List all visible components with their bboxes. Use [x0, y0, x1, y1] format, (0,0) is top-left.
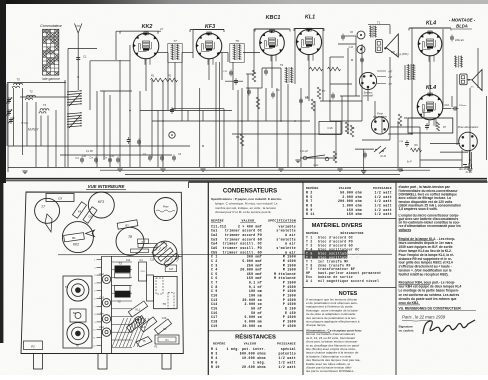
svg-text:RÉSISTANCES: RÉSISTANCES	[235, 332, 276, 340]
svg-text:T8: T8	[235, 39, 239, 43]
svg-text:10.000 ohms: 10.000 ohms	[242, 356, 266, 360]
svg-text:PUISSANCE: PUISSANCE	[373, 187, 392, 190]
svg-text:MATÉRIEL DIVERS: MATÉRIEL DIVERS	[312, 221, 363, 229]
svg-text:0,1 Mf: 0,1 Mf	[86, 150, 93, 153]
svg-text:R5: R5	[404, 116, 408, 120]
svg-text:KF3: KF3	[205, 24, 215, 30]
svg-text:VALEUR: VALEUR	[339, 187, 352, 190]
svg-text:1 még.: 1 még.	[253, 360, 266, 364]
svg-text:REPÈRE: REPÈRE	[306, 186, 319, 190]
svg-text:feuillet relatif au récepteur: feuillet relatif au récepteur KB2).	[399, 273, 449, 277]
svg-text:Cm: Cm	[110, 155, 114, 158]
svg-text:P 1500: P 1500	[283, 324, 296, 328]
svg-text:alternatif: alternatif	[363, 94, 373, 98]
svg-text:B1: B1	[72, 236, 76, 240]
svg-text:R 6: R 6	[211, 360, 218, 364]
svg-text:HP: HP	[391, 50, 395, 54]
svg-text:Commutateur: Commutateur	[40, 24, 63, 28]
svg-text:1 még. pot. inter.: 1 még. pot. inter.	[227, 347, 266, 351]
svg-text:Cm: Cm	[75, 158, 79, 160]
svg-text:R2: R2	[168, 74, 172, 78]
svg-text:d'essai pour P et M, et de ser: d'essai pour P et M, et de service pour …	[215, 210, 272, 214]
svg-text:KL1: KL1	[136, 308, 141, 312]
svg-text:R 4: R 4	[211, 356, 218, 360]
svg-text:6v P: 6v P	[407, 162, 412, 164]
svg-text:C9: C9	[58, 196, 62, 200]
svg-text:Vers Prise: Vers Prise	[459, 169, 470, 171]
svg-text:KL1: KL1	[305, 15, 315, 21]
svg-text:Ca1: Ca1	[99, 326, 104, 329]
svg-text:T2: T2	[29, 90, 33, 94]
svg-text:Cm: Cm	[100, 313, 104, 316]
svg-text:B3: B3	[125, 224, 129, 228]
svg-text:T1: T1	[377, 21, 381, 25]
svg-text:C13: C13	[349, 46, 354, 49]
svg-text:REPÈRE: REPÈRE	[306, 231, 319, 235]
svg-text:Prise alimentation: Prise alimentation	[458, 125, 479, 129]
svg-text:C7: C7	[160, 27, 164, 31]
svg-text:+HT: +HT	[388, 71, 393, 73]
svg-text:T4: T4	[43, 103, 47, 107]
svg-text:REPÈRE: REPÈRE	[213, 342, 226, 346]
svg-text:T5: T5	[16, 78, 20, 82]
svg-text:chaque lampe.: chaque lampe.	[306, 323, 326, 327]
svg-text:Ca3: Ca3	[99, 297, 104, 300]
svg-text:KF3: KF3	[98, 200, 104, 204]
svg-text:6v acc: 6v acc	[466, 172, 473, 174]
svg-text:- MONTAGE -: - MONTAGE -	[449, 18, 476, 23]
svg-text:PUISSANCE: PUISSANCE	[277, 343, 296, 346]
svg-text:Paris , le 22 mars 1939: Paris , le 22 mars 1939	[402, 315, 446, 320]
svg-text:C10: C10	[444, 103, 449, 107]
svg-text:C5: C5	[305, 95, 309, 99]
svg-text:1/2 watt: 1/2 watt	[279, 360, 296, 364]
svg-text:C17: C17	[169, 269, 174, 271]
svg-text:alimentation: alimentation	[373, 115, 388, 119]
svg-text:Prise: Prise	[163, 206, 169, 209]
svg-text:VUE INTERIEURE: VUE INTERIEURE	[88, 184, 126, 189]
svg-text:C16: C16	[327, 126, 333, 130]
svg-text:HP: HP	[163, 328, 167, 331]
svg-text:T7: T7	[41, 205, 45, 209]
svg-text:20.000 cm: 20.000 cm	[242, 324, 262, 328]
svg-text:Cm: Cm	[82, 155, 86, 158]
svg-text:Hr Cm: Hr Cm	[21, 122, 28, 125]
svg-text:R 11: R 11	[306, 212, 315, 216]
svg-text:R 10: R 10	[211, 365, 220, 369]
svg-text:R7: R7	[322, 89, 326, 93]
svg-text:T7: T7	[173, 39, 177, 43]
svg-text:C10: C10	[150, 260, 155, 262]
svg-text:220v.alt: 220v.alt	[455, 39, 464, 42]
svg-text:SPÉCIFICATION: SPÉCIFICATION	[268, 219, 296, 223]
svg-text:T8: T8	[128, 235, 132, 239]
svg-text:Ca2: Ca2	[99, 273, 104, 276]
svg-text:M.RGY: M.RGY	[28, 128, 39, 132]
svg-text:1/2 watt: 1/2 watt	[375, 212, 392, 216]
svg-text:R 3: R 3	[211, 352, 218, 356]
svg-text:R 1: R 1	[211, 347, 218, 351]
svg-text:Spécifications : P papier, no: Spécifications : P papier, non inductif.…	[211, 197, 282, 201]
svg-text:CONDENSATEURS: CONDENSATEURS	[223, 188, 277, 194]
svg-text:KL4: KL4	[426, 85, 436, 91]
svg-text:220mm: 220mm	[459, 105, 466, 107]
svg-text:KBC1: KBC1	[266, 15, 281, 21]
svg-text:T2: T2	[117, 300, 121, 304]
svg-text:tée par le convertisseur DONGE: tée par le convertisseur DONGELL.	[306, 369, 355, 373]
svg-text:20.600 ohms: 20.600 ohms	[242, 365, 266, 369]
svg-text:ou cachet:: ou cachet:	[399, 329, 414, 333]
svg-text:BLDA: BLDA	[456, 24, 468, 29]
svg-text:ceux du KB2.: ceux du KB2.	[399, 301, 420, 305]
svg-text:2hr: 2hr	[469, 87, 473, 89]
svg-text:P2: P2	[31, 345, 35, 349]
svg-text:150 ohm: 150 ohm	[347, 212, 362, 216]
svg-text:T3: T3	[118, 262, 122, 266]
svg-text:nombre qui suit, indique, en v: nombre qui suit, indique, en volts : la …	[215, 206, 276, 210]
svg-text:1,8 ampères sous 6 volts.: 1,8 ampères sous 6 volts.	[399, 207, 438, 211]
svg-text:T9: T9	[162, 302, 166, 306]
svg-text:Int.M: Int.M	[380, 155, 386, 158]
svg-text:T9: T9	[280, 63, 284, 67]
svg-text:KK2: KK2	[73, 243, 79, 247]
svg-text:NOTES: NOTES	[339, 291, 358, 297]
svg-text:+BT: +BT	[388, 77, 393, 79]
svg-text:œil magnétique accord visuel: œil magnétique accord visuel	[318, 279, 379, 283]
svg-text:lytique. C céramique. M mica,: lytique. C céramique. M mica, non induct…	[215, 201, 278, 205]
svg-text:spécial: spécial	[281, 347, 296, 351]
svg-text:Arr.gr.(KBC): Arr.gr.(KBC)	[395, 53, 409, 56]
svg-text:DÉSIGNATION: DÉSIGNATION	[340, 231, 363, 235]
svg-text:VU. RENSEIGNES DU CONSTRUCTEU: VU. RENSEIGNES DU CONSTRUCTEUR	[399, 307, 462, 311]
svg-text:C1: C1	[83, 55, 87, 59]
svg-text:VALEUR: VALEUR	[242, 219, 255, 223]
svg-text:K4: K4	[78, 210, 82, 214]
svg-text:A 1: A 1	[306, 279, 313, 283]
svg-text:1/2 watt: 1/2 watt	[279, 356, 296, 360]
svg-text:C19: C19	[211, 324, 218, 328]
svg-text:KL4: KL4	[426, 21, 436, 27]
svg-text:C10: C10	[162, 317, 167, 320]
svg-text:VALEUR: VALEUR	[244, 343, 257, 346]
svg-text:C8: C8	[88, 215, 92, 219]
svg-text:-HT: -HT	[388, 84, 392, 86]
svg-text:C14: C14	[126, 260, 131, 262]
svg-text:potentio: potentio	[279, 352, 296, 356]
svg-text:R2: R2	[236, 135, 240, 139]
svg-text:T6: T6	[65, 285, 69, 289]
svg-text:Cm: Cm	[89, 158, 93, 160]
svg-text:KK2: KK2	[142, 24, 153, 30]
svg-text:REPÈRE: REPÈRE	[211, 219, 224, 223]
svg-text:1/2 watt: 1/2 watt	[279, 365, 296, 369]
svg-text:Cm: Cm	[103, 158, 107, 160]
svg-text:500.000 ohms: 500.000 ohms	[240, 352, 266, 356]
svg-text:R1: R1	[151, 74, 155, 78]
svg-text:late gamme: late gamme	[42, 77, 60, 81]
svg-text:6,3v eff: 6,3v eff	[300, 150, 308, 153]
svg-text:Cd: Cd	[276, 88, 280, 92]
svg-text:Inter: Inter	[313, 164, 318, 167]
